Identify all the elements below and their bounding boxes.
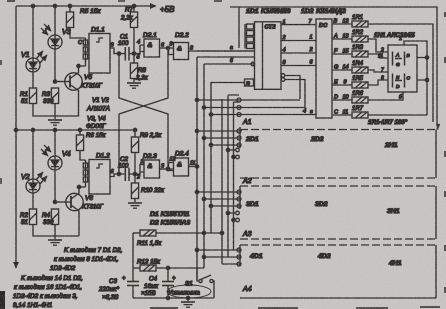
wire +5V top rail	[16, 4, 156, 7]
node 1D1 C input circle	[251, 62, 255, 66]
transistor V6	[55, 187, 83, 236]
wire A3 pins	[197, 190, 241, 208]
wire A1 pin row 3	[211, 113, 316, 117]
wire counter input C	[204, 63, 251, 65]
wire bus vertical net b	[202, 64, 205, 268]
wire A4 pins	[197, 248, 241, 266]
wire 1R5 to display	[368, 80, 388, 85]
resistor 1R6	[352, 97, 368, 103]
wire emitter rail ch1	[33, 104, 79, 117]
ground R10	[128, 203, 142, 208]
capacitor C3	[127, 233, 139, 298]
wire A1 pin row 2	[204, 106, 305, 110]
node display segments digit1	[393, 52, 405, 66]
wire 1R2 to display	[368, 39, 388, 52]
wire A3 extra stubs	[228, 211, 239, 222]
resistor 1R1	[352, 21, 368, 27]
capacitor C4	[162, 266, 174, 298]
resistor R9	[131, 130, 138, 174]
IC 1D2 K514ID2 decoder	[316, 19, 332, 118]
wire bus vertical net d	[220, 99, 223, 264]
wire 1R7 to display loop	[368, 114, 427, 116]
logic gate D2.1	[144, 39, 160, 57]
photodiode V3	[41, 6, 62, 82]
logic gate D2.2	[174, 43, 189, 60]
block A2	[240, 127, 436, 178]
wire cross-coupling X	[117, 48, 169, 176]
resistor R11	[133, 230, 222, 236]
wire D2.2 output to counter	[189, 50, 255, 52]
ground ch1	[48, 116, 62, 125]
wire emitter rail ch2	[33, 225, 79, 237]
resistor R10	[131, 174, 138, 202]
LED V2	[26, 130, 47, 209]
resistor 1R3	[352, 51, 368, 57]
wire D2.3 to D2.4	[160, 163, 174, 171]
node D1.1 input pins	[77, 38, 88, 68]
resistor R5	[66, 6, 85, 38]
resistor 1R5	[352, 82, 368, 88]
ground bottom	[181, 298, 195, 307]
scan artifact left bar	[0, 291, 5, 309]
wire counter reset R	[211, 82, 245, 84]
wire A1 pin row 1	[197, 98, 300, 102]
block A1 border	[230, 7, 437, 126]
resistor 1R7	[352, 112, 368, 118]
node display pin1	[404, 41, 429, 115]
block A4	[240, 245, 436, 298]
op-amp U D1.1 schmitt trigger	[89, 34, 110, 74]
logic gate D2.4	[174, 158, 189, 176]
resistor R12	[133, 265, 204, 271]
capacitor C2	[125, 168, 129, 182]
node 1D1 preset pins	[245, 24, 254, 49]
ground R8	[127, 83, 141, 88]
wire display right stubs	[417, 58, 427, 81]
wire D2.1 to D2.2	[160, 46, 174, 54]
node display segments digit2	[393, 74, 405, 88]
resistor R3	[51, 80, 58, 104]
wire left supply bus	[14, 6, 17, 268]
wire D1.1 output node	[110, 45, 144, 55]
node 1D1 R pin	[245, 79, 254, 86]
resistor R8	[130, 54, 137, 82]
block A3	[240, 186, 436, 239]
wire bottom common	[133, 296, 214, 299]
logic gate D2.3	[144, 160, 160, 178]
switch S1	[197, 268, 214, 298]
capacitor C1	[125, 47, 129, 61]
display H1 ALS324B	[388, 45, 417, 92]
wire bus vertical net a	[195, 57, 198, 281]
photodiode V4	[41, 130, 62, 202]
LED V1	[26, 6, 47, 88]
wire bus vertical net c	[209, 82, 212, 233]
wire 1R6 to display	[368, 92, 403, 100]
wire 1R3 to display	[368, 54, 388, 58]
wire 1D1 second C	[197, 51, 255, 64]
op-amp U D1.2 schmitt trigger	[89, 160, 110, 195]
wire bus vertical net f	[232, 102, 239, 250]
block A1 left boundary	[238, 7, 240, 48]
wire counter input -1	[197, 56, 255, 58]
resistor R1	[29, 88, 36, 104]
wire 1D1 outputs to 1D2	[281, 25, 316, 66]
resistor R7	[130, 6, 137, 54]
node D1.2 input pins	[77, 160, 87, 189]
resistor R6	[76, 130, 85, 160]
wire mid +5V rail	[16, 128, 137, 131]
IC 1D1 K155IE6 counter	[255, 22, 282, 90]
wire D2.4 output	[189, 165, 199, 168]
wire bus vertical net e	[226, 95, 239, 257]
wire A2 pins	[197, 129, 241, 147]
resistor R2	[29, 209, 36, 225]
resistor 1R4	[352, 67, 368, 73]
wire D1.2 output node	[110, 165, 144, 177]
wire decoder outputs	[332, 24, 352, 115]
ground ch2	[48, 236, 62, 245]
transistor V5	[55, 66, 82, 116]
wire 1R1 to common	[368, 24, 433, 122]
resistor R4	[51, 200, 58, 224]
resistor 1R2	[352, 36, 368, 42]
wire A2 extra stubs	[228, 148, 239, 159]
node 1D1 carry pins	[281, 74, 305, 108]
wire 1R4 to display	[368, 70, 388, 72]
